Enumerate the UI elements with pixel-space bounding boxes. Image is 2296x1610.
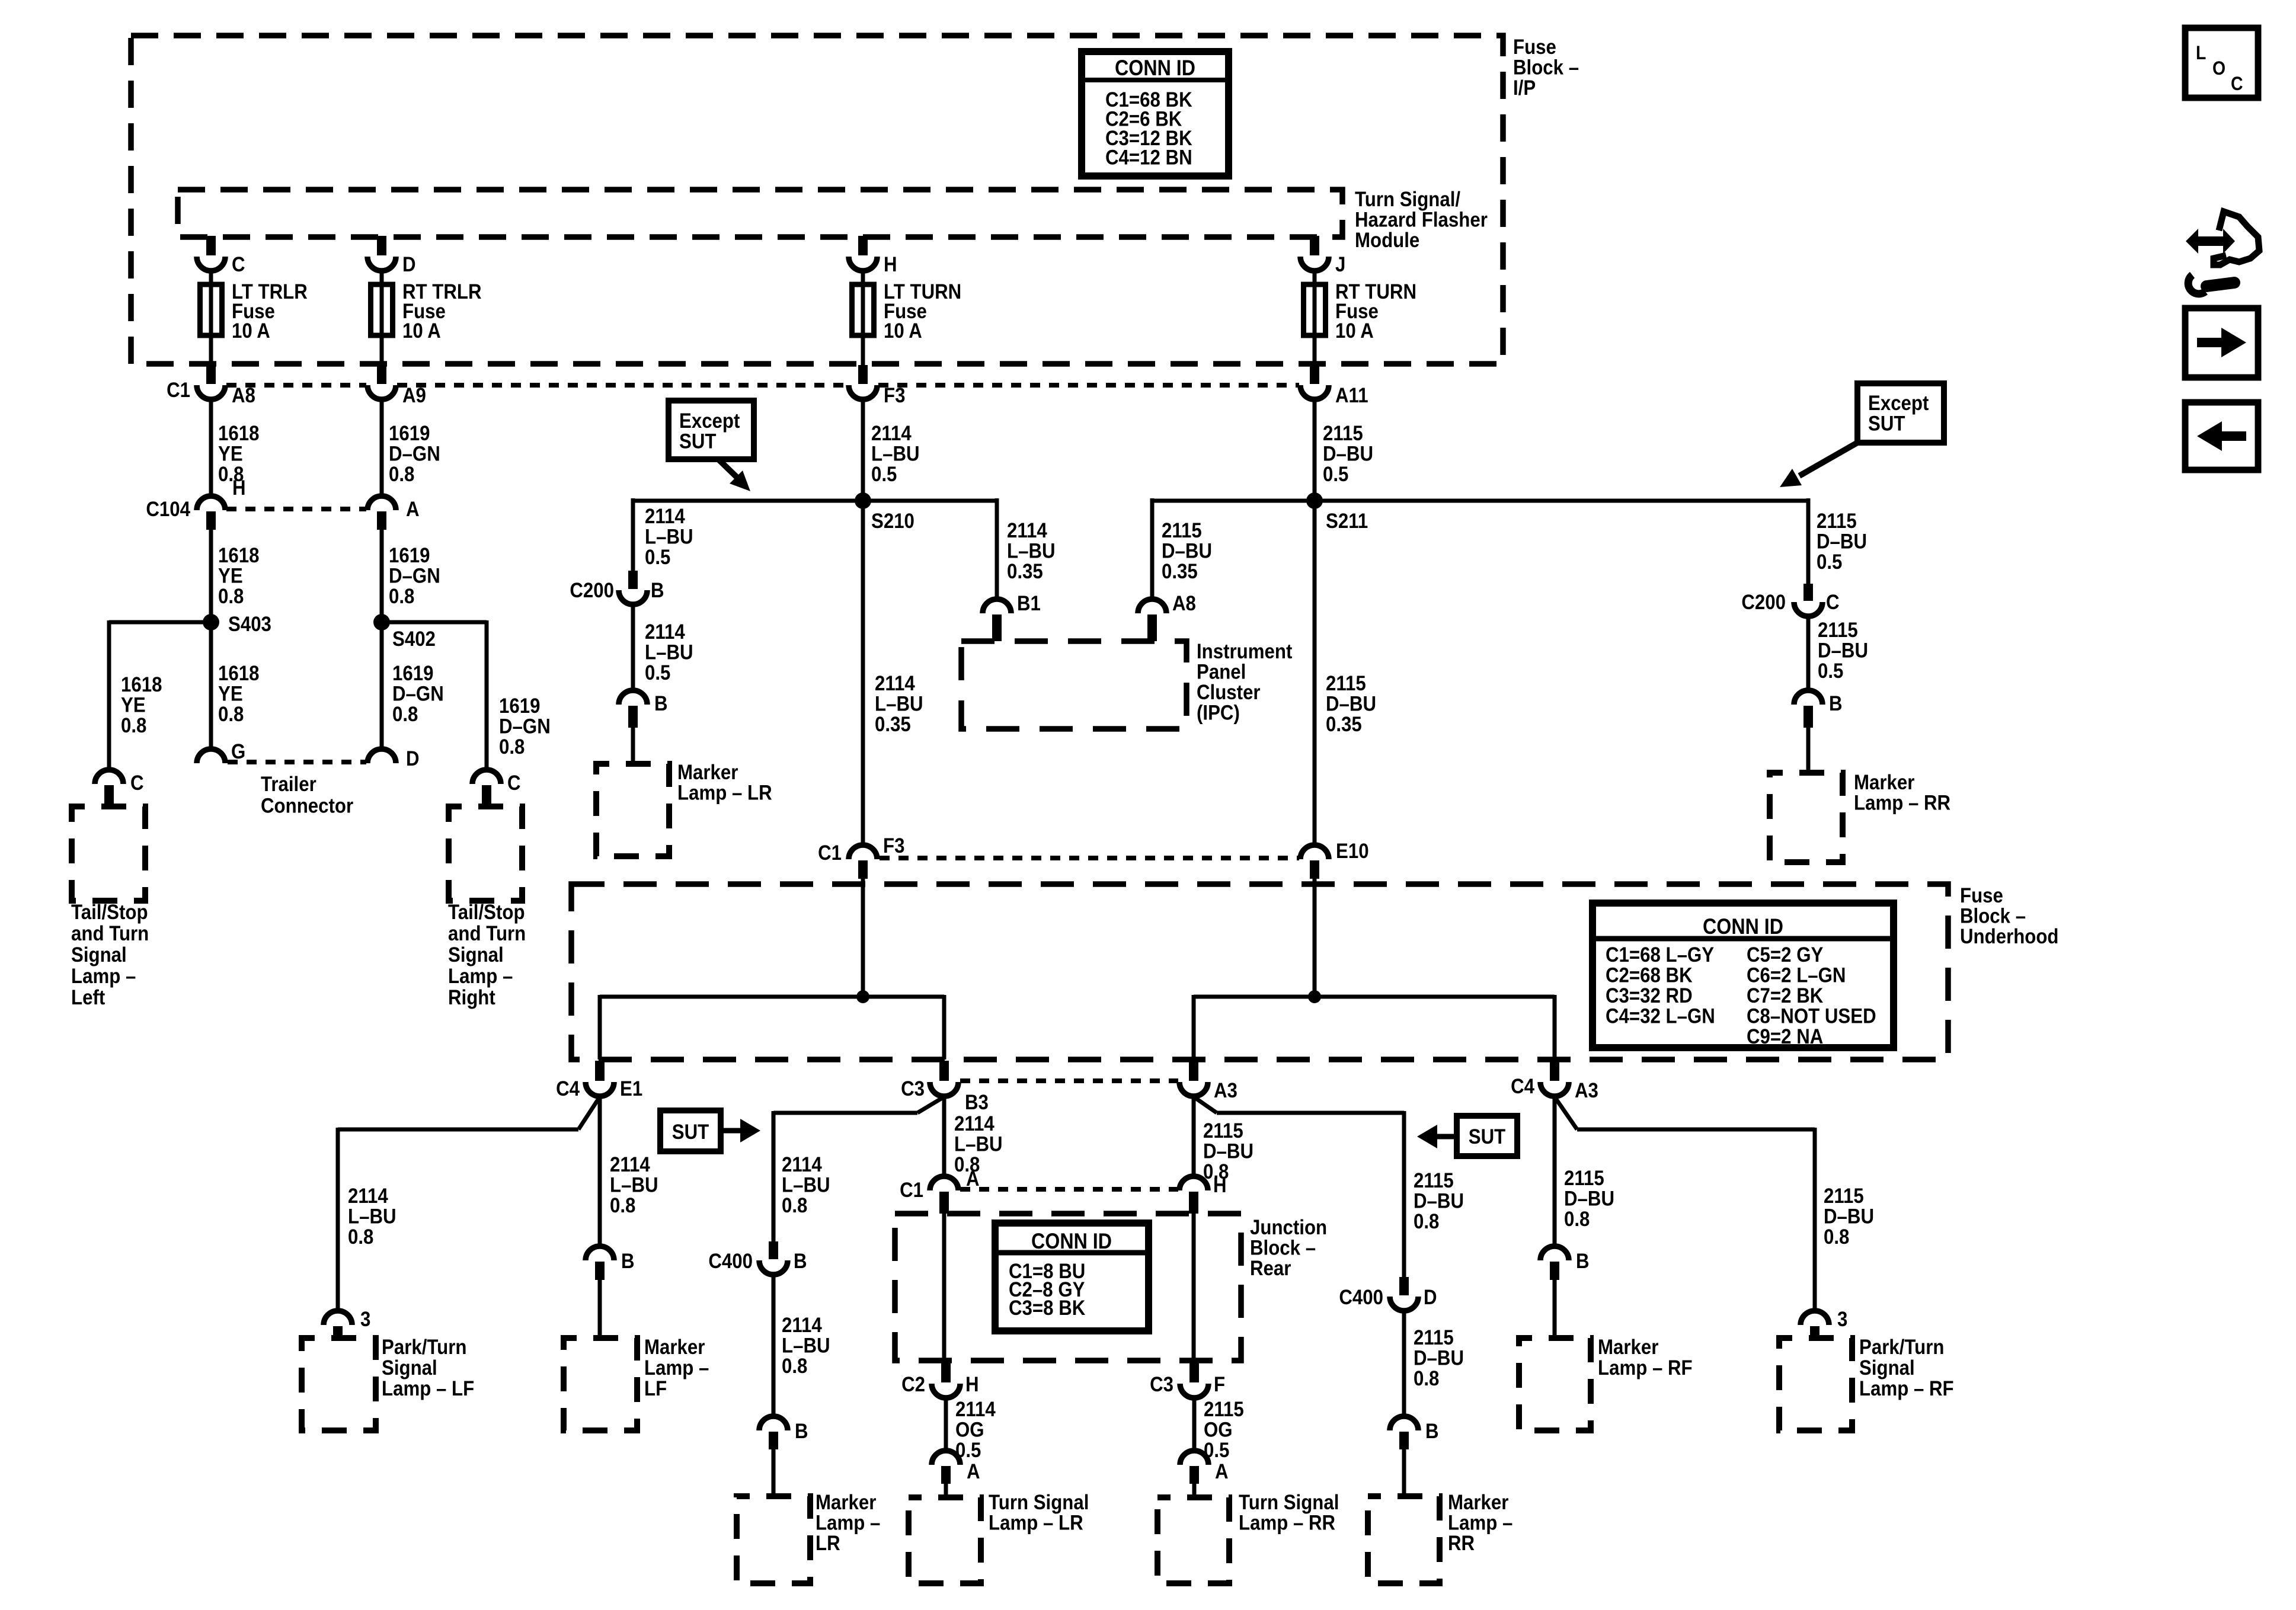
svg-text:C3: C3	[901, 1077, 925, 1100]
marker lamp - RR box	[1770, 773, 1843, 862]
connector C1 pin A11	[1300, 385, 1329, 399]
svg-text:Lamp – RR: Lamp – RR	[1854, 792, 1950, 815]
wire 2114 OG (C2 to turn signal LR)	[944, 1398, 948, 1451]
svg-text:0.8: 0.8	[1564, 1208, 1590, 1231]
svg-text:D: D	[402, 253, 416, 276]
wire S211 down to E10	[1313, 501, 1317, 845]
junction block - rear outline	[895, 1214, 1241, 1361]
svg-text:1619: 1619	[389, 544, 430, 567]
wire fuse LT TRLR to fuse block edge	[209, 335, 213, 365]
wire module to fuse LT TRLR	[206, 236, 216, 255]
svg-text:1619: 1619	[389, 422, 430, 445]
connector B (marker lamp RR)	[1794, 690, 1822, 705]
wire fuse RT TURN to fuse block edge	[1313, 335, 1317, 365]
wire module to fuse RT TURN	[1310, 236, 1319, 255]
connector pin H (module output)	[849, 257, 877, 271]
svg-text:0.5: 0.5	[645, 661, 670, 684]
svg-text:B: B	[794, 1250, 807, 1273]
trailer connector face line	[228, 760, 366, 764]
svg-text:A8: A8	[232, 384, 255, 407]
connector C3 pin B3	[939, 1061, 949, 1081]
svg-text:Lamp – LR: Lamp – LR	[989, 1512, 1083, 1535]
svg-text:B3: B3	[965, 1091, 989, 1114]
connector C1 pin A11 stub	[1310, 365, 1319, 384]
previous page icon	[2185, 402, 2258, 470]
svg-text:B: B	[654, 692, 668, 715]
svg-text:A: A	[1215, 1460, 1229, 1483]
wire C400 to marker LR	[772, 1275, 776, 1416]
svg-text:D–BU: D–BU	[1824, 1205, 1874, 1228]
svg-text:Except: Except	[679, 409, 740, 433]
connector C3 pin F	[1189, 1362, 1199, 1382]
turn signal/hazard flasher module outline	[178, 190, 1342, 237]
svg-text:C3: C3	[1150, 1373, 1173, 1396]
svg-text:1619: 1619	[499, 694, 540, 718]
svg-text:D: D	[1424, 1286, 1437, 1309]
svg-text:C400: C400	[708, 1250, 753, 1273]
svg-text:1618: 1618	[218, 662, 259, 685]
connector pin D (module output)	[367, 257, 396, 271]
svg-text:A: A	[406, 498, 420, 521]
svg-text:Lamp –: Lamp –	[816, 1512, 880, 1535]
svg-text:10 A: 10 A	[1335, 319, 1374, 343]
wire B3 to C400 B	[917, 1097, 944, 1113]
svg-text:0.8: 0.8	[1203, 1160, 1229, 1183]
svg-text:2115: 2115	[1414, 1326, 1454, 1349]
CONN ID table (underhood)	[1593, 903, 1894, 1048]
connector C1 pin F3 (underhood)	[849, 845, 877, 859]
svg-text:0.8: 0.8	[121, 714, 146, 737]
connector pin J (module output)	[1300, 257, 1329, 271]
svg-text:C8–NOT USED: C8–NOT USED	[1747, 1005, 1876, 1028]
svg-text:Lamp – LR: Lamp – LR	[677, 782, 772, 805]
svg-text:2114: 2114	[954, 1112, 994, 1135]
svg-text:L–BU: L–BU	[610, 1174, 658, 1197]
wire C4A3 to park/turn RF	[1555, 1097, 1577, 1129]
wire J to fuse	[1313, 271, 1317, 284]
svg-text:B1: B1	[1017, 592, 1041, 615]
svg-text:L–BU: L–BU	[782, 1174, 830, 1197]
svg-text:0.8: 0.8	[782, 1194, 807, 1217]
svg-text:2114: 2114	[782, 1153, 822, 1176]
svg-text:2115: 2115	[1162, 519, 1202, 542]
svg-text:C1: C1	[167, 379, 190, 402]
svg-text:A3: A3	[1575, 1079, 1598, 1102]
svg-text:C7=2 BK: C7=2 BK	[1747, 984, 1823, 1007]
svg-text:0.5: 0.5	[871, 463, 897, 486]
svg-text:Park/Turn: Park/Turn	[382, 1336, 466, 1359]
splice S403	[203, 614, 219, 630]
connector 3 (park/turn LF)	[324, 1311, 352, 1325]
svg-text:Turn Signal/: Turn Signal/	[1355, 188, 1460, 211]
svg-text:B: B	[621, 1250, 635, 1273]
svg-text:Marker: Marker	[644, 1336, 705, 1359]
svg-text:Module: Module	[1355, 229, 1419, 252]
wire inside junction block left	[942, 1214, 946, 1361]
svg-text:Signal: Signal	[1859, 1356, 1915, 1379]
svg-text:Park/Turn: Park/Turn	[1859, 1336, 1944, 1359]
svg-text:2114: 2114	[875, 672, 915, 695]
connector C1 pin A9 stub	[377, 365, 386, 384]
wire A3 to C400 D	[1194, 1097, 1217, 1113]
wire module to fuse LT TURN	[858, 236, 868, 255]
svg-text:S403: S403	[228, 613, 271, 636]
svg-text:Underhood: Underhood	[1960, 925, 2059, 948]
svg-text:S211: S211	[1326, 510, 1368, 533]
svg-text:Marker: Marker	[1854, 771, 1914, 794]
wire 2115 D-BU (C200 to marker lamp RR)	[1806, 616, 1811, 690]
svg-text:Lamp –: Lamp –	[71, 965, 136, 988]
svg-text:YE: YE	[218, 565, 243, 588]
wire 2115 D-BU (A11 to S211)	[1313, 399, 1317, 501]
svg-text:YE: YE	[218, 443, 243, 466]
svg-text:Lamp – RF: Lamp – RF	[1598, 1356, 1693, 1379]
svg-text:LF: LF	[644, 1377, 667, 1400]
connector C1 pin A (junction block)	[930, 1176, 958, 1190]
connector face line C104	[226, 507, 366, 511]
connector C1 pin A9	[367, 385, 396, 399]
svg-text:J: J	[1335, 253, 1345, 276]
svg-text:2114: 2114	[782, 1314, 822, 1337]
svg-text:D–GN: D–GN	[389, 443, 440, 466]
marker lamp - RF box	[1519, 1338, 1591, 1430]
svg-text:S402: S402	[392, 628, 436, 651]
wire D to fuse	[380, 271, 384, 284]
svg-text:L–BU: L–BU	[782, 1334, 830, 1358]
svg-text:2114: 2114	[955, 1398, 996, 1421]
svg-text:C4: C4	[556, 1077, 580, 1100]
wire S210 down to F3	[861, 501, 865, 845]
svg-text:C4=12 BN: C4=12 BN	[1105, 146, 1192, 169]
svg-text:H: H	[232, 476, 246, 500]
LOC icon	[2185, 28, 2258, 98]
svg-text:0.8: 0.8	[218, 585, 244, 608]
svg-text:Fuse: Fuse	[1513, 36, 1556, 59]
junction dot left bus	[856, 990, 869, 1003]
svg-text:L–BU: L–BU	[1007, 540, 1056, 563]
connector C200 pin B (upper)	[628, 571, 638, 589]
wire module to fuse RT TRLR	[377, 236, 386, 255]
connector B (marker lamp LF)	[586, 1246, 614, 1260]
svg-text:Turn Signal: Turn Signal	[1239, 1491, 1339, 1514]
svg-text:1619: 1619	[392, 662, 433, 685]
svg-text:2114: 2114	[645, 620, 685, 644]
splice S210	[855, 492, 871, 509]
svg-text:D–BU: D–BU	[1564, 1188, 1614, 1211]
harness service icon	[2186, 229, 2235, 254]
svg-text:0.35: 0.35	[1326, 713, 1362, 736]
wire C to fuse	[209, 271, 213, 284]
svg-text:Lamp – RR: Lamp – RR	[1239, 1512, 1335, 1535]
wire 1619 D-GN (A9 to C104)	[380, 399, 384, 496]
svg-text:H: H	[884, 253, 897, 276]
fuse block underhood outline	[571, 884, 1948, 1060]
wire E1 to park/turn LF	[578, 1097, 600, 1129]
svg-text:L–BU: L–BU	[645, 526, 693, 549]
svg-text:C400: C400	[1339, 1286, 1383, 1309]
svg-text:10 A: 10 A	[402, 319, 441, 343]
svg-text:Block –: Block –	[1513, 56, 1579, 79]
svg-text:Rear: Rear	[1250, 1257, 1291, 1280]
svg-text:C3=8 BK: C3=8 BK	[1009, 1297, 1085, 1320]
svg-text:2115: 2115	[1203, 1119, 1243, 1142]
svg-text:Marker: Marker	[816, 1491, 876, 1514]
svg-text:and Turn: and Turn	[448, 922, 526, 945]
svg-text:Cluster: Cluster	[1197, 681, 1261, 704]
wire S210 to B1 branch	[863, 499, 997, 503]
connector C400 pin B	[769, 1241, 778, 1259]
svg-text:LR: LR	[816, 1532, 840, 1555]
svg-text:SUT: SUT	[1868, 412, 1905, 436]
svg-text:O: O	[2212, 57, 2225, 79]
svg-text:B: B	[1829, 692, 1843, 715]
wire fuse RT TRLR to fuse block edge	[380, 335, 384, 365]
svg-text:2115: 2115	[1204, 1398, 1244, 1421]
next page icon	[2185, 308, 2258, 377]
svg-text:Instrument: Instrument	[1197, 640, 1292, 663]
connector C4 pin A3 (right)	[1550, 1061, 1559, 1081]
svg-text:D–BU: D–BU	[1818, 639, 1868, 662]
svg-text:B: B	[651, 579, 664, 602]
CONN ID table (fuse block I/P)	[1082, 52, 1229, 176]
svg-text:2115: 2115	[1414, 1169, 1454, 1192]
svg-text:C200: C200	[570, 579, 614, 602]
wire S211 to A8 branch	[1152, 499, 1315, 503]
svg-text:D–BU: D–BU	[1323, 443, 1373, 466]
svg-text:E1: E1	[620, 1077, 642, 1100]
park/turn signal lamp - RF box	[1779, 1338, 1852, 1430]
fuse RT TRLR 10A	[371, 284, 393, 335]
svg-text:C: C	[130, 772, 144, 795]
svg-text:0.5: 0.5	[1818, 660, 1843, 683]
connector pin H (junction block)	[1179, 1176, 1208, 1190]
wire H to fuse	[861, 271, 865, 284]
underhood bus right	[1194, 995, 1555, 999]
svg-text:L–BU: L–BU	[348, 1205, 396, 1228]
svg-text:Turn Signal: Turn Signal	[989, 1491, 1089, 1514]
svg-text:B: B	[1425, 1420, 1439, 1443]
svg-text:2114: 2114	[1007, 519, 1047, 542]
svg-text:Left: Left	[71, 986, 105, 1009]
svg-text:C: C	[1826, 591, 1840, 614]
junction dot right bus	[1308, 990, 1321, 1003]
wire 1619 D-GN (C104 to S402)	[380, 530, 384, 622]
svg-text:0.8: 0.8	[499, 735, 525, 758]
instrument panel cluster box	[961, 641, 1187, 729]
svg-text:Connector: Connector	[261, 795, 353, 818]
svg-text:Lamp –: Lamp –	[1448, 1512, 1512, 1535]
svg-text:10 A: 10 A	[884, 319, 922, 343]
svg-text:I/P: I/P	[1513, 76, 1536, 100]
junction block connector face line	[960, 1187, 1178, 1192]
svg-text:RR: RR	[1448, 1532, 1475, 1555]
svg-text:2115: 2115	[1818, 619, 1858, 642]
svg-text:10 A: 10 A	[232, 319, 270, 343]
svg-text:Panel: Panel	[1197, 661, 1246, 684]
svg-text:C: C	[232, 253, 245, 276]
connector C400 pin D	[1399, 1277, 1409, 1295]
svg-text:E10: E10	[1336, 840, 1369, 863]
svg-text:0.8: 0.8	[1414, 1367, 1439, 1390]
svg-text:Except: Except	[1868, 392, 1929, 415]
svg-text:C5=2 GY: C5=2 GY	[1747, 943, 1823, 966]
connector C1 pin A8 stub	[206, 365, 216, 384]
svg-text:2115: 2115	[1564, 1167, 1604, 1190]
svg-text:C1=68 L–GY: C1=68 L–GY	[1606, 943, 1714, 966]
svg-text:2115: 2115	[1817, 510, 1857, 533]
svg-text:0.5: 0.5	[1817, 550, 1842, 574]
svg-text:0.5: 0.5	[1323, 463, 1348, 486]
connector B (marker lamp LR)	[619, 690, 647, 705]
svg-text:Lamp – RF: Lamp – RF	[1859, 1377, 1954, 1400]
park/turn signal lamp - LF box	[302, 1338, 376, 1430]
splice S402	[373, 614, 390, 630]
connector face line B3-A3	[960, 1078, 1178, 1083]
svg-text:A11: A11	[1335, 384, 1368, 407]
connector A8 (IPC)	[1138, 599, 1166, 613]
svg-text:C3=32 RD: C3=32 RD	[1606, 984, 1693, 1007]
wire S403 to G	[209, 622, 213, 749]
svg-text:H: H	[965, 1373, 979, 1396]
svg-text:0.8: 0.8	[389, 585, 414, 608]
svg-text:C2=68 BK: C2=68 BK	[1606, 964, 1693, 987]
wire B3 down to junction block	[942, 1097, 946, 1176]
svg-text:A9: A9	[402, 384, 426, 407]
svg-text:S210: S210	[871, 510, 914, 533]
svg-text:0.8: 0.8	[348, 1225, 373, 1249]
fuse LT TURN 10A	[852, 284, 874, 335]
tail/stop and turn signal lamp - right	[449, 806, 522, 901]
svg-text:0.8: 0.8	[610, 1194, 635, 1217]
connector C1 pin A8	[197, 385, 225, 399]
svg-text:C1: C1	[900, 1179, 923, 1202]
svg-text:2115: 2115	[1824, 1185, 1864, 1208]
wire A3 down to junction block	[1192, 1097, 1196, 1176]
wire inside junction block right	[1192, 1214, 1196, 1361]
wire 2115 OG (C3 to turn signal RR)	[1192, 1398, 1197, 1451]
connector 3 (park/turn RF)	[1801, 1311, 1829, 1325]
svg-text:D–BU: D–BU	[1326, 693, 1376, 716]
svg-text:Right: Right	[448, 986, 495, 1009]
SUT callout (left)	[660, 1110, 721, 1151]
svg-text:0.35: 0.35	[1007, 560, 1043, 583]
marker lamp - LR box (bottom)	[737, 1496, 810, 1583]
svg-text:B: B	[795, 1420, 808, 1443]
svg-text:3: 3	[360, 1308, 370, 1331]
connector C104 pin A	[367, 496, 396, 510]
svg-text:D–GN: D–GN	[389, 565, 440, 588]
connector pin C (module output)	[197, 257, 225, 271]
svg-text:Marker: Marker	[1448, 1491, 1508, 1514]
svg-text:1618: 1618	[218, 544, 259, 567]
connector face line F3-E10	[880, 856, 1299, 860]
svg-text:0.8: 0.8	[1824, 1225, 1849, 1249]
svg-text:Marker: Marker	[1598, 1336, 1658, 1359]
svg-text:L–BU: L–BU	[645, 641, 693, 664]
connector C200 pin C	[1803, 584, 1813, 601]
svg-text:D: D	[406, 747, 420, 770]
marker lamp - RR box (bottom)	[1368, 1496, 1440, 1583]
svg-text:A: A	[967, 1460, 980, 1483]
connector C2 pin H	[941, 1362, 951, 1382]
connector A (turn signal RR)	[1180, 1451, 1208, 1465]
svg-text:SUT: SUT	[1469, 1125, 1506, 1148]
svg-text:B: B	[1576, 1250, 1590, 1273]
svg-text:D–BU: D–BU	[1817, 530, 1867, 553]
svg-text:C9=2 NA: C9=2 NA	[1747, 1025, 1823, 1048]
svg-text:D–BU: D–BU	[1414, 1347, 1464, 1370]
svg-text:CONN ID: CONN ID	[1115, 56, 1195, 80]
fuse block I/P outline	[131, 36, 1503, 364]
connector face line (fuse block bottom row)	[226, 383, 366, 388]
svg-text:Signal: Signal	[382, 1356, 437, 1379]
svg-text:Fuse: Fuse	[1960, 884, 2003, 907]
connector G (trailer)	[197, 749, 225, 763]
fuse RT TURN 10A	[1304, 284, 1326, 335]
svg-text:F3: F3	[883, 834, 904, 857]
svg-text:F: F	[1214, 1373, 1225, 1396]
connector B1 (IPC)	[983, 599, 1011, 613]
SUT callout (right)	[1457, 1116, 1517, 1156]
svg-text:A8: A8	[1172, 592, 1196, 615]
connector C1 pin F3 stub	[858, 365, 868, 384]
connector B (marker lamp RF)	[1540, 1246, 1569, 1260]
svg-text:F3: F3	[884, 384, 905, 407]
svg-text:YE: YE	[218, 683, 243, 706]
svg-text:C: C	[2231, 73, 2243, 94]
connector pin E10 (underhood)	[1300, 845, 1329, 859]
svg-text:L: L	[2196, 42, 2206, 63]
svg-text:C104: C104	[146, 498, 190, 521]
svg-text:Trailer: Trailer	[261, 773, 316, 796]
svg-text:D–GN: D–GN	[392, 683, 444, 706]
svg-text:C2: C2	[901, 1373, 925, 1396]
connector A (turn signal LR)	[932, 1451, 960, 1465]
wire C4A3 down to marker RF	[1553, 1097, 1557, 1246]
svg-text:3: 3	[1837, 1308, 1847, 1331]
svg-text:SUT: SUT	[672, 1121, 709, 1144]
connector B (marker lamp RR bottom)	[1390, 1416, 1418, 1430]
underhood bus left	[600, 995, 944, 999]
svg-text:OG: OG	[955, 1419, 984, 1442]
wire fuse LT TURN to fuse block edge	[861, 335, 865, 365]
wire S210 to C200 branch	[633, 499, 863, 503]
connector D (trailer)	[367, 749, 396, 763]
svg-text:2114: 2114	[348, 1185, 388, 1208]
svg-text:D–BU: D–BU	[1414, 1190, 1464, 1213]
svg-text:L–BU: L–BU	[875, 693, 923, 716]
wire F3 to bus (inside underhood)	[861, 879, 865, 997]
svg-text:Junction: Junction	[1250, 1216, 1327, 1239]
svg-text:0.8: 0.8	[392, 703, 418, 726]
svg-text:and Turn: and Turn	[71, 922, 149, 945]
svg-text:0.35: 0.35	[875, 713, 911, 736]
svg-text:2114: 2114	[610, 1153, 650, 1176]
svg-text:0.8: 0.8	[218, 703, 244, 726]
svg-text:C1: C1	[818, 841, 842, 865]
svg-text:Tail/Stop: Tail/Stop	[448, 901, 525, 924]
svg-text:C4: C4	[1511, 1075, 1534, 1098]
svg-text:Block –: Block –	[1250, 1237, 1316, 1260]
svg-text:Hazard Flasher: Hazard Flasher	[1355, 209, 1488, 232]
svg-text:C6=2 L–GN: C6=2 L–GN	[1747, 964, 1846, 987]
svg-text:0.5: 0.5	[645, 546, 670, 569]
svg-text:D–BU: D–BU	[1162, 540, 1212, 563]
svg-text:C: C	[507, 772, 521, 795]
wire 2114 L-BU (F3 to S210)	[861, 399, 865, 501]
wire E1 down to marker LF	[598, 1097, 602, 1246]
svg-text:0.8: 0.8	[1414, 1210, 1439, 1233]
